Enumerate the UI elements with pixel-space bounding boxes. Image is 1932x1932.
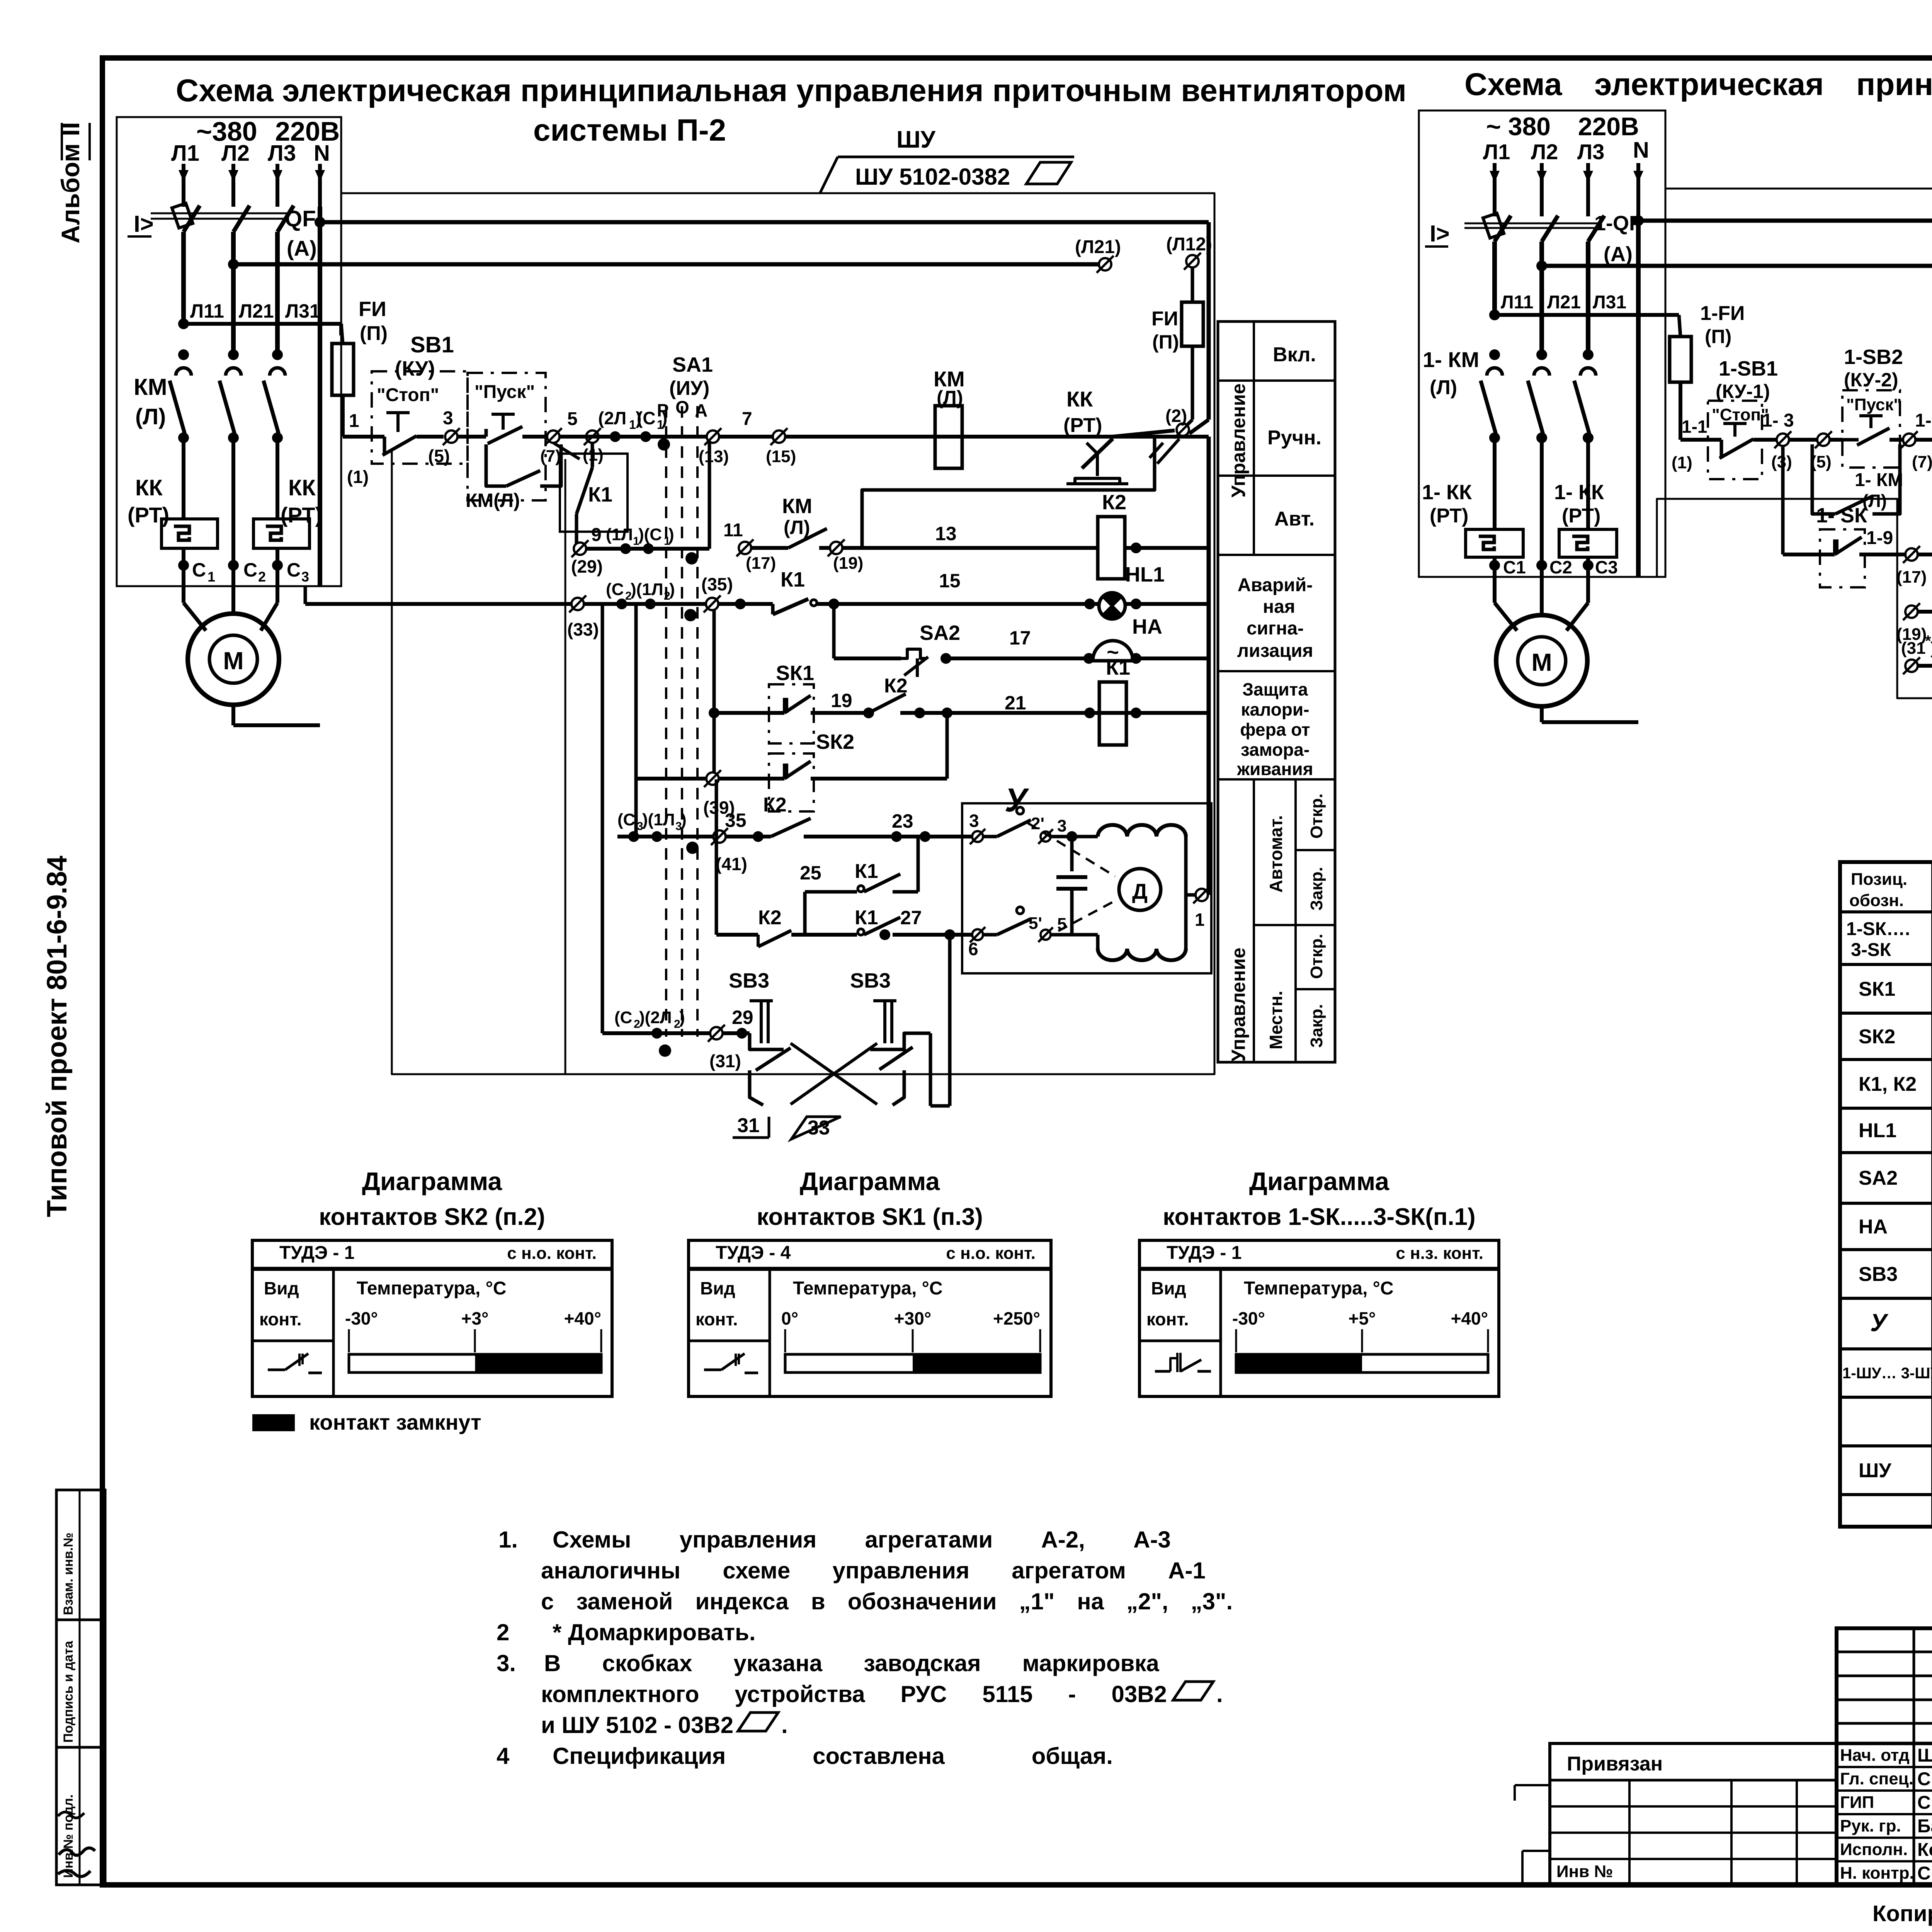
svg-text:(17): (17) bbox=[1896, 568, 1927, 587]
svg-text:К1: К1 bbox=[855, 860, 878, 883]
breaker QF bbox=[184, 206, 200, 232]
svg-text:1-1: 1-1 bbox=[1682, 417, 1707, 437]
svg-text:Закр.: Закр. bbox=[1307, 1004, 1326, 1048]
right power box bbox=[1419, 111, 1665, 577]
svg-text:НА: НА bbox=[1132, 615, 1162, 638]
svg-text:-30°: -30° bbox=[345, 1308, 378, 1328]
svg-text:Схема электрическая принципиал: Схема электрическая принципиальная управ… bbox=[1464, 67, 1932, 102]
svg-text:ТУДЭ - 1: ТУДЭ - 1 bbox=[279, 1243, 354, 1263]
node 35 bbox=[706, 598, 718, 610]
svg-text:С: С bbox=[243, 559, 257, 581]
svg-text:(КУ-2): (КУ-2) bbox=[1844, 369, 1898, 391]
svg-text:31: 31 bbox=[737, 1114, 760, 1137]
svg-text:К1: К1 bbox=[781, 568, 805, 591]
svg-text:К1: К1 bbox=[1106, 656, 1130, 679]
relay K1 bypass box bbox=[560, 454, 628, 532]
svg-text:ШУ: ШУ bbox=[1859, 1459, 1891, 1482]
svg-text:(35): (35) bbox=[701, 574, 733, 594]
supply line right x=4110 bbox=[1586, 163, 1590, 216]
svg-text:SК2: SК2 bbox=[1859, 1026, 1895, 1048]
svg-text:Откр.: Откр. bbox=[1307, 934, 1326, 979]
svg-text:SК1: SК1 bbox=[776, 662, 814, 685]
svg-text:3: 3 bbox=[969, 811, 979, 831]
svg-text:Управление: Управление bbox=[1228, 383, 1249, 497]
svg-text:живания: живания bbox=[1236, 759, 1313, 779]
svg-text:(29): (29) bbox=[571, 556, 603, 577]
svg-text:(1): (1) bbox=[1672, 453, 1692, 472]
svg-text:)(1Л: )(1Л bbox=[631, 580, 663, 599]
svg-text:Подпись и дата: Подпись и дата bbox=[61, 1640, 76, 1743]
svg-text:Температура, °С: Температура, °С bbox=[793, 1278, 943, 1299]
actuator capacitor bbox=[1070, 837, 1074, 871]
svg-text:1-FИ: 1-FИ bbox=[1700, 302, 1745, 325]
node (2) with break bbox=[1177, 423, 1189, 436]
supply line x=475 bbox=[182, 164, 185, 207]
svg-text:Закр.: Закр. bbox=[1307, 867, 1326, 910]
node 15 bbox=[773, 430, 785, 443]
svg-text:Шашкин: Шашкин bbox=[1917, 1745, 1932, 1766]
row3 right bbox=[1905, 605, 1918, 618]
svg-text:1- КК: 1- КК bbox=[1422, 481, 1472, 504]
svg-text:Температура, °С: Температура, °С bbox=[357, 1278, 507, 1299]
svg-text:(2): (2) bbox=[1165, 406, 1187, 426]
svg-text:"Пуск": "Пуск" bbox=[1846, 395, 1901, 414]
svg-text:с н.о. конт.: с н.о. конт. bbox=[946, 1244, 1036, 1263]
svg-text:Местн.: Местн. bbox=[1266, 991, 1286, 1049]
svg-text:(С: (С bbox=[606, 580, 624, 599]
actuator motor D bbox=[1119, 869, 1161, 910]
supply line right x=4240 bbox=[1636, 163, 1640, 216]
motor M bbox=[188, 614, 279, 705]
svg-text:): ) bbox=[679, 1008, 685, 1027]
svg-text:2: 2 bbox=[258, 569, 266, 585]
svg-text:(П): (П) bbox=[1705, 326, 1731, 347]
svg-text:SА2: SА2 bbox=[1859, 1167, 1898, 1189]
svg-text:.: . bbox=[1216, 1681, 1223, 1707]
svg-text:и ШУ 5102 - 03В2: и ШУ 5102 - 03В2 bbox=[541, 1712, 733, 1738]
svg-text:Л21: Л21 bbox=[239, 300, 274, 322]
svg-text:Д: Д bbox=[1132, 879, 1148, 903]
svg-text:2': 2' bbox=[1031, 814, 1044, 833]
fuse FI right bbox=[1191, 267, 1194, 302]
svg-text:(7): (7) bbox=[540, 447, 561, 466]
svg-text:(РТ): (РТ) bbox=[1430, 505, 1468, 527]
switch SA2 row17 bbox=[832, 604, 836, 658]
svg-text:Схема электрическая принципиал: Схема электрическая принципиальная управ… bbox=[176, 73, 1406, 108]
node 5 bbox=[547, 430, 560, 443]
svg-text:КК: КК bbox=[288, 475, 316, 500]
svg-text:Л11: Л11 bbox=[190, 300, 224, 322]
svg-text:К2: К2 bbox=[1102, 491, 1126, 514]
svg-text:(Л): (Л) bbox=[784, 517, 810, 538]
bus A right schematic bbox=[1633, 215, 1644, 226]
svg-text:FИ: FИ bbox=[1151, 308, 1178, 330]
svg-text:конт.: конт. bbox=[696, 1309, 738, 1329]
supply line x=718 bbox=[276, 164, 279, 207]
breaker 1-QF bbox=[1495, 216, 1511, 241]
svg-text:Л1: Л1 bbox=[1483, 139, 1510, 164]
svg-text:.: . bbox=[781, 1712, 788, 1738]
svg-text:С2: С2 bbox=[1549, 557, 1572, 577]
svg-text:Исполн.: Исполн. bbox=[1840, 1840, 1908, 1859]
svg-text:N: N bbox=[1633, 138, 1649, 163]
svg-text:В скобках указана заводская ма: В скобках указана заводская маркировка bbox=[544, 1650, 1159, 1676]
svg-text:ГИП: ГИП bbox=[1840, 1793, 1874, 1812]
svg-text:1-SB2: 1-SB2 bbox=[1844, 345, 1903, 369]
svg-text:13: 13 bbox=[935, 523, 957, 544]
svg-text:(31: (31 bbox=[1901, 639, 1926, 658]
svg-text:комплектного устройства РУС 51: комплектного устройства РУС 5115 - 03В2 bbox=[541, 1681, 1167, 1707]
svg-text:У: У bbox=[1870, 1309, 1889, 1337]
svg-text:SК1: SК1 bbox=[1859, 978, 1895, 1000]
node (1) bbox=[586, 430, 599, 443]
svg-text:калори-: калори- bbox=[1241, 699, 1309, 719]
svg-text:): ) bbox=[681, 810, 687, 829]
privyazan table bbox=[1550, 1743, 1837, 1885]
svg-text:Схемы управления агрегатами А-: Схемы управления агрегатами А-2, А-3 bbox=[553, 1527, 1171, 1553]
svg-text:29: 29 bbox=[732, 1007, 753, 1028]
svg-text:"Стоп": "Стоп" bbox=[1712, 405, 1769, 424]
svg-text:21: 21 bbox=[1005, 692, 1026, 714]
wire from row27 to SB3 bbox=[948, 935, 952, 1106]
upravlenie table left bbox=[1218, 321, 1335, 1062]
svg-text:Сыркин: Сыркин bbox=[1917, 1793, 1932, 1813]
svg-text:С3: С3 bbox=[1595, 557, 1618, 577]
svg-text:К1: К1 bbox=[588, 483, 612, 506]
svg-text:QF: QF bbox=[285, 206, 316, 231]
wire row3 (C2)(1L2) bbox=[305, 602, 765, 606]
right cabinet outline bbox=[1657, 189, 1932, 698]
svg-text:Л31: Л31 bbox=[1593, 292, 1626, 313]
svg-text:с н.о. конт.: с н.о. конт. bbox=[507, 1244, 597, 1263]
svg-text:17: 17 bbox=[1009, 627, 1031, 649]
row2 right bbox=[1905, 548, 1918, 561]
svg-text:Диаграмма: Диаграмма bbox=[1249, 1167, 1390, 1196]
supply line right x=3868 bbox=[1493, 163, 1497, 216]
node 2L1 bbox=[610, 431, 621, 442]
node L12 terminal bbox=[1186, 255, 1199, 267]
svg-text:Инв №: Инв № bbox=[1556, 1862, 1613, 1881]
svg-text:1.: 1. bbox=[498, 1527, 518, 1553]
svg-text:(15): (15) bbox=[766, 447, 796, 466]
legend contact closed bbox=[252, 1414, 295, 1431]
node 1 actuator bbox=[1196, 889, 1208, 901]
svg-text:(ИУ): (ИУ) bbox=[669, 377, 709, 400]
svg-text:1- SК: 1- SК bbox=[1816, 504, 1867, 527]
actuator windings bottom bbox=[1098, 949, 1186, 960]
svg-text:"Пуск": "Пуск" bbox=[474, 382, 535, 402]
motor M right bbox=[1496, 615, 1587, 706]
svg-text:КМ: КМ bbox=[134, 374, 167, 400]
svg-text:(РТ): (РТ) bbox=[1562, 505, 1600, 527]
actuator top row contacts bbox=[972, 831, 983, 842]
svg-text:)(1Л: )(1Л bbox=[642, 810, 675, 829]
svg-text:Нач. отд: Нач. отд bbox=[1840, 1746, 1910, 1765]
svg-text:1: 1 bbox=[207, 569, 215, 585]
svg-text:М: М bbox=[223, 647, 243, 675]
svg-text:Позиц.: Позиц. bbox=[1851, 870, 1907, 889]
svg-text:5': 5' bbox=[1029, 914, 1042, 933]
svg-text:SB1: SB1 bbox=[410, 332, 454, 357]
svg-text:7: 7 bbox=[742, 409, 752, 429]
svg-text:Вкл.: Вкл. bbox=[1273, 344, 1316, 366]
svg-text:(Л): (Л) bbox=[1430, 376, 1457, 399]
svg-text:1- КМ: 1- КМ bbox=[1855, 470, 1903, 490]
svg-text:Откр.: Откр. bbox=[1307, 794, 1326, 839]
svg-text:Альбом II: Альбом II bbox=[56, 122, 85, 243]
svg-text:SB3: SB3 bbox=[729, 969, 769, 992]
svg-text:SA1: SA1 bbox=[672, 353, 713, 376]
bus 2 bbox=[228, 259, 239, 270]
svg-text:(П): (П) bbox=[1152, 331, 1179, 353]
svg-text:5: 5 bbox=[1057, 915, 1066, 934]
svg-text:обозн.: обозн. bbox=[1849, 891, 1904, 910]
svg-text:К1: К1 bbox=[855, 906, 878, 929]
svg-text:Вид: Вид bbox=[1151, 1278, 1186, 1298]
wire row1 to selector bbox=[560, 435, 1209, 439]
svg-text:Спецификация составлена общая.: Спецификация составлена общая. bbox=[553, 1743, 1113, 1769]
svg-text:Л11: Л11 bbox=[1501, 292, 1533, 313]
svg-text:(РТ): (РТ) bbox=[1063, 414, 1102, 437]
svg-text:"Стоп": "Стоп" bbox=[377, 385, 439, 405]
svg-text:SA2: SA2 bbox=[920, 621, 960, 645]
node C1 bbox=[640, 431, 651, 442]
supply line right x=3990 bbox=[1540, 163, 1544, 216]
node 1-5 bbox=[1903, 434, 1915, 446]
actuator bottom row bbox=[972, 929, 983, 940]
bus A top bbox=[315, 217, 325, 228]
svg-text:(РТ): (РТ) bbox=[281, 503, 322, 527]
svg-text:Защита: Защита bbox=[1242, 679, 1308, 699]
svg-text:* Домаркировать.: * Домаркировать. bbox=[553, 1619, 756, 1645]
svg-text:К2: К2 bbox=[763, 794, 787, 816]
svg-text:(41): (41) bbox=[716, 854, 747, 874]
svg-text:(КУ-1): (КУ-1) bbox=[1716, 381, 1770, 402]
motor terminals C1 C2 C3 bbox=[178, 560, 189, 571]
svg-text:Вид: Вид bbox=[700, 1278, 735, 1298]
svg-text:КК: КК bbox=[1066, 387, 1093, 411]
svg-text:замора-: замора- bbox=[1241, 740, 1310, 760]
svg-text:Л3: Л3 bbox=[268, 141, 296, 166]
svg-text:(Л): (Л) bbox=[135, 404, 166, 429]
svg-text:+3°: +3° bbox=[461, 1308, 489, 1328]
svg-text:Л2: Л2 bbox=[1531, 139, 1558, 164]
svg-text:~ 380: ~ 380 bbox=[1486, 112, 1551, 141]
svg-text:15: 15 bbox=[939, 570, 961, 592]
svg-text:(5): (5) bbox=[428, 446, 450, 466]
relay coil K2 bbox=[1098, 517, 1125, 579]
fuse FI bbox=[341, 324, 343, 344]
svg-text:С: С bbox=[192, 559, 206, 581]
svg-text:): ) bbox=[668, 525, 674, 544]
svg-text:1- 3: 1- 3 bbox=[1762, 410, 1794, 431]
svg-text:Диаграмма: Диаграмма bbox=[800, 1167, 940, 1196]
right bus of left scheme bbox=[1207, 437, 1211, 895]
svg-text:контактов 1-SК.....3-SК(п.1): контактов 1-SК.....3-SК(п.1) bbox=[1163, 1204, 1475, 1230]
svg-text:1- КМ: 1- КМ bbox=[1423, 347, 1479, 372]
cross link SB3 bbox=[791, 1043, 877, 1104]
svg-text:(1Л: (1Л bbox=[606, 525, 633, 544]
svg-text:КМ(Л): КМ(Л) bbox=[466, 490, 520, 511]
svg-text:1-SК….: 1-SК…. bbox=[1846, 919, 1910, 939]
svg-text:(С: (С bbox=[614, 1008, 632, 1027]
svg-text:I>: I> bbox=[134, 211, 154, 237]
svg-text:Л2: Л2 bbox=[221, 141, 250, 166]
svg-text:I>: I> bbox=[1430, 221, 1450, 247]
svg-text:(А): (А) bbox=[287, 236, 317, 260]
svg-text:Л31: Л31 bbox=[285, 300, 320, 322]
left power box bbox=[117, 117, 341, 586]
svg-text:(А): (А) bbox=[1604, 243, 1633, 266]
svg-text:контактов SК2 (п.2): контактов SК2 (п.2) bbox=[319, 1204, 545, 1230]
svg-text:Рук. гр.: Рук. гр. bbox=[1840, 1816, 1901, 1835]
svg-text:Ручн.: Ручн. bbox=[1267, 427, 1321, 449]
svg-text:): ) bbox=[1930, 639, 1932, 658]
svg-text:КК: КК bbox=[135, 475, 163, 500]
svg-text:N: N bbox=[314, 141, 330, 166]
relay coil K1 bbox=[1099, 682, 1126, 745]
svg-text:(2Л: (2Л bbox=[598, 408, 626, 428]
svg-text:Типовой проект 801-6-9.84: Типовой проект 801-6-9.84 bbox=[42, 855, 73, 1217]
svg-text:КМ: КМ bbox=[782, 495, 812, 518]
stamp column cells bbox=[56, 1490, 105, 1885]
svg-text:Взам. инв.№: Взам. инв.№ bbox=[61, 1532, 76, 1615]
svg-text:(КУ): (КУ) bbox=[395, 357, 435, 380]
svg-text:11: 11 bbox=[723, 520, 743, 541]
svg-text:с заменой индекса в обозначени: с заменой индекса в обозначении „1" на „… bbox=[541, 1588, 1233, 1614]
svg-text:1-SB1: 1-SB1 bbox=[1719, 357, 1778, 380]
svg-text:К2: К2 bbox=[758, 906, 782, 929]
svg-text:Привязан: Привязан bbox=[1567, 1753, 1663, 1775]
svg-text:1: 1 bbox=[349, 411, 359, 431]
wire L11 right bbox=[1489, 310, 1500, 320]
svg-text:-30°: -30° bbox=[1232, 1308, 1265, 1328]
svg-text:(17): (17) bbox=[746, 554, 776, 573]
svg-text:FИ: FИ bbox=[359, 298, 386, 321]
svg-text:фера от: фера от bbox=[1240, 719, 1310, 740]
svg-text:Копировал: Копировал bbox=[1872, 1901, 1932, 1926]
svg-text:Синицын: Синицын bbox=[1917, 1863, 1932, 1884]
svg-text:5: 5 bbox=[567, 409, 578, 429]
svg-text:Вид: Вид bbox=[264, 1278, 299, 1298]
svg-text:3.: 3. bbox=[497, 1650, 516, 1676]
svg-text:): ) bbox=[669, 580, 675, 599]
terminals C1 C2 C3 right bbox=[1489, 560, 1500, 571]
bus A drop to node 2 bbox=[1207, 222, 1211, 420]
svg-text:Коршунов: Коршунов bbox=[1917, 1840, 1932, 1860]
svg-text:системы П-2: системы П-2 bbox=[533, 113, 726, 147]
svg-text:(Л12): (Л12) bbox=[1166, 234, 1212, 255]
svg-text:Синицын: Синицын bbox=[1917, 1769, 1932, 1789]
svg-text:1- 5: 1- 5 bbox=[1915, 410, 1932, 431]
svg-text:М: М bbox=[1531, 648, 1552, 676]
node 13 bbox=[707, 430, 719, 443]
svg-text:27: 27 bbox=[900, 907, 922, 929]
svg-text:Аварий-: Аварий- bbox=[1238, 575, 1313, 595]
svg-text:(31): (31) bbox=[709, 1051, 741, 1071]
svg-text:HL1: HL1 bbox=[1125, 563, 1165, 586]
wire row1 right bbox=[1915, 438, 1932, 442]
svg-text:контакт замкнут: контакт замкнут bbox=[309, 1410, 481, 1434]
supply line x=604 bbox=[231, 164, 235, 207]
svg-text:контактов SК1 (п.3): контактов SК1 (п.3) bbox=[757, 1204, 983, 1230]
svg-text:6: 6 bbox=[968, 939, 978, 959]
wire corner row13 to row7 bbox=[862, 437, 1155, 548]
svg-text:35: 35 bbox=[725, 810, 747, 831]
svg-text:0°: 0° bbox=[781, 1308, 798, 1328]
fuse 1-FI bbox=[1670, 337, 1691, 382]
svg-text:1-9: 1-9 bbox=[1866, 528, 1893, 548]
svg-text:сигна-: сигна- bbox=[1247, 618, 1304, 639]
svg-text:ТУДЭ - 4: ТУДЭ - 4 bbox=[716, 1243, 791, 1263]
svg-text:SК2: SК2 bbox=[816, 730, 854, 753]
svg-text:+5°: +5° bbox=[1349, 1308, 1376, 1328]
svg-text:)(2Л: )(2Л bbox=[639, 1008, 672, 1027]
svg-text:2: 2 bbox=[497, 1619, 509, 1645]
svg-text:1: 1 bbox=[1195, 910, 1205, 930]
svg-text:ШУ 5102-0382: ШУ 5102-0382 bbox=[855, 164, 1010, 190]
svg-text:SВ3: SВ3 bbox=[1859, 1263, 1898, 1286]
svg-text:SB3: SB3 bbox=[850, 969, 891, 992]
svg-text:Диаграмма: Диаграмма bbox=[362, 1167, 503, 1196]
svg-text:1: 1 bbox=[629, 418, 636, 432]
supply line x=828 bbox=[318, 164, 322, 207]
svg-text:+250°: +250° bbox=[993, 1308, 1040, 1328]
left cabinet outline bbox=[341, 193, 1214, 1074]
svg-text:+40°: +40° bbox=[1451, 1308, 1488, 1328]
svg-text:9: 9 bbox=[591, 525, 602, 545]
svg-text:4: 4 bbox=[497, 1743, 510, 1769]
svg-text:Н. контр.: Н. контр. bbox=[1840, 1864, 1914, 1883]
svg-text:Л21: Л21 bbox=[1547, 292, 1581, 313]
node 1-3 bbox=[1777, 434, 1789, 446]
svg-text:(7): (7) bbox=[1912, 452, 1932, 471]
svg-text:)(С: )(С bbox=[638, 525, 662, 544]
svg-text:+30°: +30° bbox=[894, 1308, 931, 1328]
start button Pusk with KM(L) bypass bbox=[468, 373, 546, 500]
svg-text:+40°: +40° bbox=[564, 1308, 601, 1328]
svg-text:(33): (33) bbox=[567, 619, 599, 639]
svg-text:С: С bbox=[287, 559, 301, 581]
svg-text:Л3: Л3 bbox=[1577, 139, 1604, 164]
svg-text:Автомат.: Автомат. bbox=[1266, 815, 1286, 893]
actuator windings top bbox=[1098, 825, 1186, 837]
title block bbox=[1837, 1628, 1932, 1885]
svg-text:(1): (1) bbox=[347, 467, 369, 487]
svg-text:(19): (19) bbox=[833, 554, 863, 573]
svg-text:Гл. спец.: Гл. спец. bbox=[1840, 1769, 1913, 1788]
svg-text:К1, К2: К1, К2 bbox=[1859, 1073, 1917, 1095]
svg-text:3-SК: 3-SК bbox=[1851, 940, 1891, 960]
svg-text:(П): (П) bbox=[360, 322, 388, 345]
svg-text:Температура, °С: Температура, °С bbox=[1244, 1278, 1394, 1299]
svg-text:аналогичны схеме управления аг: аналогичны схеме управления агрегатом А-… bbox=[541, 1558, 1206, 1583]
svg-text:ная: ная bbox=[1263, 597, 1295, 617]
row13 KM aux contact bbox=[739, 542, 751, 554]
svg-text:23: 23 bbox=[892, 810, 913, 832]
svg-text:220В: 220В bbox=[1578, 112, 1639, 141]
svg-text:25: 25 bbox=[800, 862, 821, 884]
vertical feeder from node 7 bbox=[565, 459, 566, 1074]
svg-text:19: 19 bbox=[831, 690, 852, 711]
svg-text:Инв.№ подл.: Инв.№ подл. bbox=[61, 1794, 76, 1878]
svg-text:(С: (С bbox=[637, 408, 656, 428]
bus 2 right schematic bbox=[1536, 260, 1547, 271]
svg-text:с н.з. конт.: с н.з. конт. bbox=[1396, 1244, 1483, 1263]
svg-text:1- КК: 1- КК bbox=[1554, 481, 1604, 504]
node L21 terminal bbox=[1099, 258, 1111, 270]
svg-text:конт.: конт. bbox=[259, 1309, 302, 1329]
